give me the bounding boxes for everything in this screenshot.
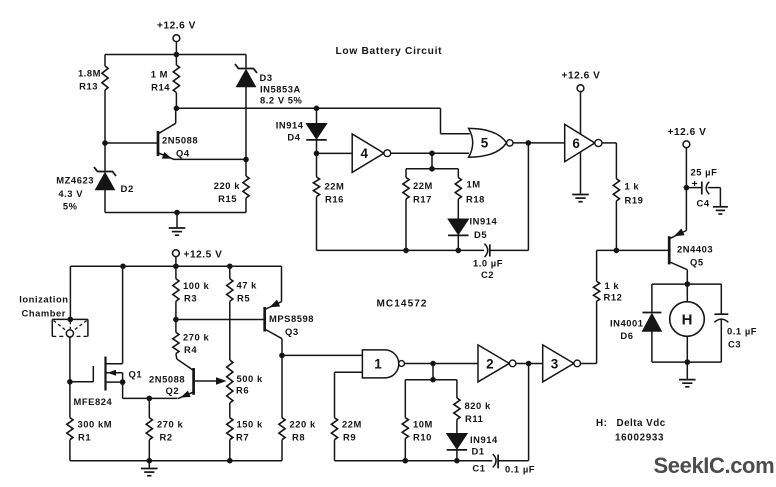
svg-text:270 k: 270 k [183, 331, 209, 342]
svg-text:R13: R13 [79, 81, 98, 92]
svg-text:Q2: Q2 [166, 385, 180, 396]
svg-text:IN914: IN914 [470, 434, 498, 445]
svg-text:1.8M: 1.8M [78, 68, 101, 79]
svg-text:47 k: 47 k [237, 279, 258, 290]
svg-text:1 k: 1 k [625, 181, 640, 192]
svg-text:IN5853A: IN5853A [260, 84, 301, 95]
svg-text:MC14572: MC14572 [377, 299, 428, 310]
svg-text:220 k: 220 k [214, 180, 240, 191]
svg-text:R1: R1 [78, 432, 91, 443]
svg-text:C3: C3 [728, 339, 741, 350]
svg-text:22M: 22M [342, 419, 362, 430]
svg-text:D4: D4 [287, 132, 300, 143]
svg-text:D1: D1 [472, 446, 485, 457]
svg-text:0.1 µF: 0.1 µF [727, 325, 757, 336]
svg-text:220 k: 220 k [290, 419, 316, 430]
svg-text:2: 2 [486, 356, 494, 371]
svg-text:5%: 5% [63, 201, 78, 212]
svg-text:Ionization: Ionization [19, 294, 68, 305]
svg-text:C2: C2 [481, 269, 494, 280]
svg-text:R4: R4 [184, 344, 197, 355]
svg-text:R14: R14 [151, 82, 170, 93]
svg-text:Q4: Q4 [176, 148, 190, 159]
svg-text:H: H [682, 312, 693, 329]
svg-text:SeekIC.com: SeekIC.com [654, 453, 775, 478]
svg-text:R8: R8 [292, 432, 305, 443]
svg-text:Q1: Q1 [129, 368, 143, 379]
svg-text:1.0 µF: 1.0 µF [473, 258, 503, 269]
svg-text:R5: R5 [237, 293, 250, 304]
svg-text:300 kM: 300 kM [78, 419, 113, 430]
svg-text:IN914: IN914 [276, 120, 304, 131]
svg-text:D5: D5 [474, 229, 487, 240]
svg-text:R7: R7 [236, 432, 249, 443]
svg-text:Delta Vdc: Delta Vdc [617, 418, 666, 429]
svg-text:R9: R9 [343, 432, 356, 443]
svg-text:C4: C4 [697, 198, 710, 209]
svg-text:IN4001: IN4001 [610, 317, 644, 328]
svg-text:D2: D2 [121, 184, 134, 195]
svg-text:25 µF: 25 µF [691, 167, 718, 178]
svg-text:D6: D6 [620, 330, 633, 341]
svg-text:MPS8598: MPS8598 [269, 313, 314, 324]
svg-text:150 k: 150 k [237, 419, 263, 430]
svg-text:R6: R6 [236, 385, 249, 396]
svg-text:Q3: Q3 [285, 326, 299, 337]
svg-text:22M: 22M [325, 181, 345, 192]
svg-text:Chamber: Chamber [22, 308, 67, 319]
svg-text:2N5088: 2N5088 [149, 373, 185, 384]
svg-text:8.2 V 5%: 8.2 V 5% [260, 95, 303, 106]
svg-text:R15: R15 [218, 193, 237, 204]
svg-text:C1: C1 [472, 462, 485, 473]
svg-text:22M: 22M [413, 180, 433, 191]
svg-text:R18: R18 [466, 193, 485, 204]
svg-text:100 k: 100 k [183, 280, 209, 291]
svg-text:MFE824: MFE824 [74, 396, 113, 407]
svg-text:R11: R11 [465, 413, 483, 424]
svg-text:+12.6 V: +12.6 V [668, 127, 707, 138]
svg-text:0.1 µF: 0.1 µF [505, 464, 535, 475]
svg-text:2N4403: 2N4403 [677, 243, 713, 254]
svg-text:1 k: 1 k [605, 280, 620, 291]
svg-text:16002933: 16002933 [615, 433, 664, 444]
svg-text:R16: R16 [325, 194, 344, 205]
svg-text:10M: 10M [413, 419, 433, 430]
svg-text:+12.6 V: +12.6 V [157, 21, 196, 32]
svg-text:4.3 V: 4.3 V [58, 188, 83, 199]
svg-text:R12: R12 [604, 292, 623, 303]
svg-text:+12.5 V: +12.5 V [184, 249, 223, 260]
svg-text:820 k: 820 k [465, 400, 491, 411]
svg-text:5: 5 [481, 136, 489, 151]
svg-text:D3: D3 [260, 72, 273, 83]
svg-text:MZ4623: MZ4623 [56, 175, 94, 186]
svg-text:R2: R2 [160, 432, 173, 443]
svg-text:1 M: 1 M [151, 69, 168, 80]
svg-text:R3: R3 [184, 293, 197, 304]
svg-text:270 k: 270 k [157, 419, 183, 430]
svg-text:R10: R10 [413, 432, 432, 443]
svg-text:H:: H: [596, 418, 607, 429]
svg-text:R17: R17 [413, 193, 432, 204]
svg-text:R19: R19 [625, 194, 644, 205]
svg-text:3: 3 [551, 356, 559, 371]
svg-text:2N5088: 2N5088 [162, 135, 198, 146]
svg-text:1: 1 [374, 357, 382, 372]
svg-text:+12.6 V: +12.6 V [562, 70, 601, 81]
svg-text:1M: 1M [467, 179, 481, 190]
svg-text:500 k: 500 k [237, 373, 263, 384]
svg-text:4: 4 [360, 146, 368, 161]
svg-text:IN914: IN914 [470, 216, 498, 227]
svg-text:6: 6 [572, 136, 580, 151]
svg-text:Low Battery Circuit: Low Battery Circuit [336, 46, 443, 57]
svg-text:Q5: Q5 [690, 256, 704, 267]
